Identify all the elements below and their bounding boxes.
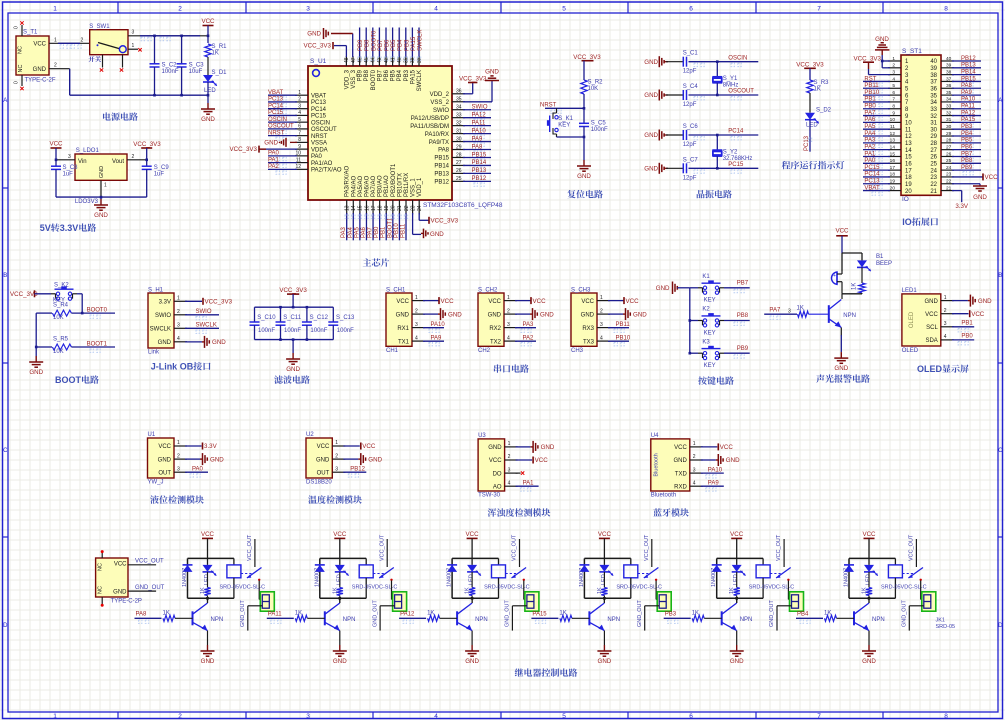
svg-text:OSCOUT: OSCOUT <box>268 124 294 130</box>
svg-text:B: B <box>3 273 7 279</box>
svg-text:3.3V: 3.3V <box>204 443 218 450</box>
svg-text:PA2: PA2 <box>523 336 535 342</box>
svg-text:PA6: PA6 <box>361 226 367 238</box>
svg-text:1: 1 <box>693 441 696 447</box>
svg-text:S_C6: S_C6 <box>683 124 699 130</box>
svg-text:4: 4 <box>693 480 696 486</box>
svg-text:S_C8: S_C8 <box>63 165 79 171</box>
svg-text:2: 2 <box>944 308 947 314</box>
svg-text:PC13: PC13 <box>864 179 880 185</box>
svg-text:GND: GND <box>333 658 347 665</box>
svg-text:4: 4 <box>892 76 895 82</box>
svg-text:S_CH3: S_CH3 <box>571 288 591 294</box>
svg-text:1: 1 <box>53 713 57 720</box>
svg-text:PC13: PC13 <box>311 100 327 106</box>
svg-text:OSCIN: OSCIN <box>311 120 330 126</box>
svg-text:PA8: PA8 <box>472 144 484 150</box>
svg-text:PB4: PB4 <box>961 131 973 137</box>
svg-text:19: 19 <box>905 182 912 188</box>
svg-text:20: 20 <box>890 185 896 191</box>
svg-text:PC13: PC13 <box>268 97 284 103</box>
svg-text:GND: GND <box>316 457 330 463</box>
svg-text:PB5: PB5 <box>961 138 973 144</box>
svg-text:S_CH1: S_CH1 <box>386 288 406 294</box>
svg-text:16: 16 <box>364 205 370 211</box>
svg-text:1uF: 1uF <box>63 172 74 178</box>
svg-text:40: 40 <box>930 59 937 65</box>
svg-text:S_C11: S_C11 <box>283 315 302 321</box>
svg-text:31: 31 <box>930 121 937 127</box>
svg-text:PA11/USB/DM: PA11/USB/DM <box>410 124 449 130</box>
svg-text:PB8: PB8 <box>737 313 749 319</box>
svg-text:S_CH2: S_CH2 <box>478 288 498 294</box>
svg-text:2: 2 <box>54 63 57 69</box>
svg-text:VCC: VCC <box>730 531 744 538</box>
svg-text:BOOT1: BOOT1 <box>387 217 393 238</box>
svg-text:NRST: NRST <box>268 130 285 136</box>
svg-text:SRD-05VDC-SL-C: SRD-05VDC-SL-C <box>352 585 398 591</box>
svg-text:KEY: KEY <box>558 123 570 129</box>
svg-text:PA0: PA0 <box>864 158 876 164</box>
svg-text:PB4: PB4 <box>398 39 404 51</box>
svg-text:SCL: SCL <box>926 325 938 331</box>
svg-text:BOOT1: BOOT1 <box>87 341 108 347</box>
svg-text:VCC: VCC <box>489 458 502 464</box>
svg-text:GND: GND <box>598 658 612 665</box>
svg-text:40: 40 <box>946 56 952 62</box>
svg-text:VCC: VCC <box>862 531 876 538</box>
svg-text:PB12: PB12 <box>434 180 449 186</box>
svg-text:GND: GND <box>94 212 108 219</box>
svg-text:CH2: CH2 <box>478 348 491 354</box>
svg-text:PB6: PB6 <box>961 144 973 150</box>
svg-text:S_R1: S_R1 <box>212 44 228 50</box>
svg-text:VDD_3: VDD_3 <box>344 69 350 89</box>
svg-text:2: 2 <box>892 63 895 69</box>
svg-text:1N4007: 1N4007 <box>314 568 320 587</box>
svg-text:SRD-05: SRD-05 <box>936 624 956 630</box>
svg-text:3: 3 <box>600 322 603 328</box>
svg-text:PB1: PB1 <box>381 226 387 238</box>
svg-text:GND: GND <box>644 166 658 173</box>
svg-text:Bluetooth: Bluetooth <box>651 493 676 499</box>
svg-text:10uF: 10uF <box>189 69 203 75</box>
svg-text:1K: 1K <box>212 51 219 57</box>
svg-text:U1: U1 <box>148 432 156 438</box>
svg-text:1uF: 1uF <box>154 172 165 178</box>
svg-text:100nF: 100nF <box>591 127 608 133</box>
svg-text:TXD: TXD <box>675 471 688 477</box>
svg-text:33: 33 <box>946 104 952 110</box>
svg-text:7: 7 <box>892 97 895 103</box>
svg-text:PB11: PB11 <box>864 83 879 89</box>
svg-text:U2: U2 <box>306 432 314 438</box>
svg-text:21: 21 <box>930 189 937 195</box>
svg-text:RST: RST <box>864 76 876 82</box>
svg-text:1: 1 <box>132 43 135 49</box>
svg-text:K2: K2 <box>702 307 710 313</box>
svg-text:PA8: PA8 <box>136 612 148 618</box>
svg-text:VCC: VCC <box>533 298 547 305</box>
svg-text:OLED: OLED <box>902 348 919 354</box>
svg-text:27: 27 <box>946 144 952 150</box>
svg-text:1: 1 <box>892 56 895 62</box>
svg-text:PB14: PB14 <box>434 164 449 170</box>
svg-text:2: 2 <box>693 454 696 460</box>
svg-text:12pF: 12pF <box>683 102 697 108</box>
svg-text:PA9: PA9 <box>708 481 720 487</box>
svg-text:GND: GND <box>924 299 938 305</box>
svg-text:DO: DO <box>493 471 502 477</box>
svg-text:14: 14 <box>890 144 896 150</box>
svg-text:33: 33 <box>930 107 937 113</box>
svg-text:11: 11 <box>890 124 895 130</box>
svg-text:19: 19 <box>384 205 390 211</box>
svg-text:PB9: PB9 <box>358 69 364 81</box>
svg-text:GND: GND <box>99 166 105 178</box>
svg-text:S_C13: S_C13 <box>336 315 355 321</box>
svg-text:GND: GND <box>29 369 43 376</box>
svg-text:2: 2 <box>600 308 603 314</box>
svg-text:LED: LED <box>806 123 818 129</box>
svg-text:30: 30 <box>946 124 952 130</box>
svg-text:OLED: OLED <box>909 311 915 328</box>
svg-text:38: 38 <box>946 69 952 75</box>
svg-text:GND: GND <box>862 658 876 665</box>
svg-text:VCC: VCC <box>201 18 215 25</box>
svg-text:PA7: PA7 <box>864 110 876 116</box>
svg-text:2: 2 <box>508 454 511 460</box>
svg-text:PA7/AO: PA7/AO <box>371 175 377 197</box>
svg-text:VDDA: VDDA <box>311 147 328 153</box>
svg-text:S_H1: S_H1 <box>148 288 164 294</box>
svg-text:VCC_3V3: VCC_3V3 <box>205 298 233 305</box>
svg-text:35: 35 <box>946 90 952 96</box>
svg-text:10: 10 <box>905 121 912 127</box>
svg-text:S_D2: S_D2 <box>816 108 832 114</box>
svg-text:S_Y1: S_Y1 <box>723 76 738 82</box>
svg-text:37: 37 <box>930 80 937 86</box>
svg-text:GND: GND <box>730 658 744 665</box>
svg-text:36: 36 <box>946 83 952 89</box>
svg-text:PA3: PA3 <box>864 138 876 144</box>
svg-text:GND_OUT: GND_OUT <box>372 599 378 627</box>
svg-text:1K: 1K <box>597 587 603 594</box>
svg-text:1K: 1K <box>729 587 735 594</box>
svg-text:PA7: PA7 <box>769 308 781 314</box>
svg-text:NC: NC <box>98 563 104 571</box>
svg-text:GND: GND <box>644 59 658 66</box>
svg-text:12pF: 12pF <box>683 69 697 75</box>
svg-text:PA1: PA1 <box>523 481 535 487</box>
svg-text:SWCLK: SWCLK <box>150 327 171 333</box>
svg-text:20: 20 <box>391 205 397 211</box>
svg-text:VSS_3: VSS_3 <box>351 69 357 88</box>
svg-text:31: 31 <box>946 117 952 123</box>
svg-text:PA15: PA15 <box>532 612 547 618</box>
svg-text:PB13: PB13 <box>434 172 449 178</box>
svg-text:PC14: PC14 <box>268 103 284 109</box>
svg-text:1: 1 <box>600 295 603 301</box>
svg-text:Vin: Vin <box>78 159 87 165</box>
svg-text:PB7: PB7 <box>378 39 384 51</box>
svg-text:KEY: KEY <box>704 330 716 336</box>
svg-text:PA15: PA15 <box>411 36 417 51</box>
svg-text:VCC: VCC <box>201 531 215 538</box>
svg-text:SWCLK: SWCLK <box>196 323 217 329</box>
svg-text:S_C10: S_C10 <box>257 315 276 321</box>
svg-text:CH3: CH3 <box>571 348 584 354</box>
svg-text:48: 48 <box>344 57 350 63</box>
svg-text:SRD-05VDC-SL-C: SRD-05VDC-SL-C <box>881 585 927 591</box>
svg-text:VSSA: VSSA <box>311 141 327 147</box>
svg-text:PA2: PA2 <box>864 144 876 150</box>
svg-text:S_C7: S_C7 <box>683 157 699 163</box>
svg-text:S_C2: S_C2 <box>162 63 178 69</box>
svg-text:18: 18 <box>905 175 912 181</box>
svg-text:1K: 1K <box>814 87 821 93</box>
svg-text:B: B <box>998 273 1002 279</box>
svg-text:S_ST1: S_ST1 <box>902 48 922 55</box>
svg-text:PA10: PA10 <box>708 467 723 473</box>
svg-text:3: 3 <box>415 322 418 328</box>
svg-text:PB7: PB7 <box>961 151 973 157</box>
svg-text:PB10: PB10 <box>864 90 879 96</box>
svg-text:PA11: PA11 <box>268 612 282 618</box>
svg-text:RXD: RXD <box>674 484 687 490</box>
svg-text:GND: GND <box>488 445 502 451</box>
svg-text:NRST: NRST <box>540 103 557 109</box>
svg-text:PB0/AO: PB0/AO <box>378 175 384 197</box>
svg-text:1: 1 <box>507 295 510 301</box>
svg-text:RX1: RX1 <box>397 326 409 332</box>
svg-text:1: 1 <box>944 295 947 301</box>
svg-text:CH1: CH1 <box>386 348 399 354</box>
svg-text:VCC: VCC <box>581 299 594 305</box>
svg-text:PA15: PA15 <box>410 69 416 84</box>
svg-text:6: 6 <box>689 6 693 13</box>
svg-text:PA2/TX/AO: PA2/TX/AO <box>311 168 342 174</box>
svg-text:PB0: PB0 <box>961 334 973 340</box>
svg-text:1: 1 <box>177 440 180 446</box>
svg-text:GND: GND <box>368 456 382 463</box>
svg-text:SWIO: SWIO <box>433 108 449 114</box>
svg-text:PB5: PB5 <box>391 39 397 51</box>
svg-text:PA10: PA10 <box>431 322 446 328</box>
svg-text:3: 3 <box>177 466 180 472</box>
svg-text:4: 4 <box>944 334 947 340</box>
svg-text:VCC_OUT: VCC_OUT <box>644 534 650 561</box>
svg-text:GND_OUT: GND_OUT <box>240 599 246 627</box>
svg-text:2: 2 <box>507 308 510 314</box>
svg-text:GND: GND <box>448 311 462 318</box>
svg-text:GND: GND <box>201 116 215 123</box>
svg-text:PA9: PA9 <box>431 336 443 342</box>
svg-text:PA6/AO: PA6/AO <box>364 175 370 197</box>
svg-text:PB4: PB4 <box>397 69 403 81</box>
svg-text:PA5/AO: PA5/AO <box>358 175 364 197</box>
svg-text:AO: AO <box>493 484 502 490</box>
svg-text:SRD-05VDC-SL-C: SRD-05VDC-SL-C <box>749 585 795 591</box>
svg-text:32: 32 <box>930 114 937 120</box>
svg-text:34: 34 <box>946 97 952 103</box>
svg-text:PB12: PB12 <box>961 56 976 62</box>
svg-text:U4: U4 <box>651 433 659 439</box>
svg-text:PA6: PA6 <box>864 117 876 123</box>
svg-text:S_U1: S_U1 <box>310 58 327 65</box>
svg-text:11: 11 <box>905 127 912 133</box>
svg-text:8: 8 <box>944 713 948 720</box>
svg-text:3: 3 <box>788 308 791 314</box>
svg-text:100nF: 100nF <box>284 328 301 334</box>
svg-text:A: A <box>3 98 7 104</box>
svg-text:1N4007: 1N4007 <box>447 568 453 587</box>
svg-text:5V: 5V <box>40 223 51 233</box>
svg-text:GND: GND <box>673 458 687 464</box>
svg-text:VCC: VCC <box>466 531 480 538</box>
svg-text:NPN: NPN <box>475 617 488 623</box>
svg-text:PB3: PB3 <box>404 39 410 51</box>
svg-text:VCC: VCC <box>488 299 501 305</box>
svg-text:4: 4 <box>177 336 180 342</box>
svg-text:S_C3: S_C3 <box>189 63 205 69</box>
svg-text:1N4007: 1N4007 <box>844 568 850 587</box>
svg-text:28: 28 <box>946 138 952 144</box>
svg-text:TYPE-C-2P: TYPE-C-2P <box>111 599 142 605</box>
svg-text:1N4007: 1N4007 <box>182 568 188 587</box>
svg-text:PB8: PB8 <box>364 69 370 81</box>
svg-text:GND: GND <box>541 444 555 451</box>
svg-text:SWIO: SWIO <box>155 313 171 319</box>
svg-text:PC15: PC15 <box>311 114 327 120</box>
svg-text:U3: U3 <box>478 433 486 439</box>
svg-text:NPN: NPN <box>740 617 753 623</box>
svg-text:PC14: PC14 <box>311 107 327 113</box>
svg-text:10: 10 <box>890 117 896 123</box>
svg-text:VDD_2: VDD_2 <box>430 92 450 98</box>
svg-text:13: 13 <box>345 205 351 211</box>
svg-text:VSS_1: VSS_1 <box>411 178 417 197</box>
svg-text:D: D <box>3 623 8 629</box>
svg-text:4: 4 <box>434 6 438 13</box>
svg-text:VCC: VCC <box>971 311 985 318</box>
svg-text:GND: GND <box>875 36 889 43</box>
svg-text:NPN: NPN <box>607 617 620 623</box>
svg-text:VCC: VCC <box>33 42 46 48</box>
svg-text:PC15: PC15 <box>864 165 880 171</box>
svg-text:VSS_2: VSS_2 <box>430 100 449 106</box>
svg-text:GND: GND <box>264 140 278 147</box>
svg-text:VDD_1: VDD_1 <box>417 177 423 197</box>
svg-text:Link: Link <box>148 350 160 356</box>
svg-text:PB1: PB1 <box>961 320 973 326</box>
svg-text:14: 14 <box>351 205 357 211</box>
svg-text:OLED: OLED <box>917 364 943 374</box>
svg-text:PB14: PB14 <box>472 160 487 166</box>
svg-text:VCC_3V3: VCC_3V3 <box>303 43 331 50</box>
svg-text:18: 18 <box>890 172 896 178</box>
svg-text:PB5: PB5 <box>391 69 397 81</box>
svg-text:2: 2 <box>177 453 180 459</box>
svg-text:24: 24 <box>417 205 423 211</box>
svg-text:2: 2 <box>81 38 84 44</box>
svg-text:S_LDO1: S_LDO1 <box>76 148 100 154</box>
svg-text:PB3: PB3 <box>961 124 973 130</box>
svg-text:PA10/RX: PA10/RX <box>425 132 449 138</box>
svg-text:GND: GND <box>577 173 591 180</box>
svg-text:1: 1 <box>177 296 180 302</box>
svg-text:29: 29 <box>930 134 937 140</box>
svg-text:26: 26 <box>946 151 952 157</box>
svg-text:PB7: PB7 <box>737 280 749 286</box>
svg-text:PA3: PA3 <box>523 322 535 328</box>
svg-text:2: 2 <box>178 6 182 13</box>
svg-text:29: 29 <box>946 131 952 137</box>
svg-text:GND: GND <box>726 457 740 464</box>
svg-text:S_C5: S_C5 <box>591 121 607 127</box>
svg-text:VCC_OUT: VCC_OUT <box>379 534 385 561</box>
svg-text:BOOT0: BOOT0 <box>371 69 377 90</box>
svg-text:SRD-05VDC-SL-C: SRD-05VDC-SL-C <box>616 585 662 591</box>
svg-text:14: 14 <box>905 148 912 154</box>
svg-text:PC15: PC15 <box>728 162 744 168</box>
svg-text:VCC_OUT: VCC_OUT <box>776 534 782 561</box>
svg-text:GND: GND <box>396 312 410 318</box>
svg-text:PB0: PB0 <box>864 104 876 110</box>
svg-text:LDO3V3: LDO3V3 <box>75 199 99 205</box>
svg-text:GND: GND <box>210 456 224 463</box>
svg-text:S_SW1: S_SW1 <box>89 24 110 30</box>
svg-text:RX2: RX2 <box>489 326 501 332</box>
svg-text:GND_OUT: GND_OUT <box>505 599 511 627</box>
svg-text:NC: NC <box>18 46 24 54</box>
svg-text:PB1/AO: PB1/AO <box>384 175 390 197</box>
svg-text:PB14: PB14 <box>961 69 976 75</box>
svg-text:100nF: 100nF <box>337 328 354 334</box>
svg-text:PA1/AO: PA1/AO <box>311 161 333 167</box>
svg-text:3: 3 <box>177 323 180 329</box>
svg-text:J-Link OB: J-Link OB <box>151 362 194 372</box>
svg-text:15: 15 <box>358 205 364 211</box>
svg-text:VCC: VCC <box>317 444 330 450</box>
svg-text:0: 0 <box>14 81 20 84</box>
svg-text:7: 7 <box>817 6 821 13</box>
svg-text:TX2: TX2 <box>490 339 502 345</box>
svg-text:GND: GND <box>581 312 595 318</box>
svg-text:34: 34 <box>930 100 937 106</box>
svg-text:VCC_3V3: VCC_3V3 <box>796 62 824 69</box>
svg-text:PA12: PA12 <box>961 110 976 116</box>
svg-text:GND: GND <box>540 311 554 318</box>
svg-text:GND: GND <box>834 365 848 372</box>
svg-text:PB3: PB3 <box>404 69 410 81</box>
svg-text:3.3V: 3.3V <box>60 223 79 233</box>
svg-text:1K: 1K <box>465 587 471 594</box>
svg-text:DS18B20: DS18B20 <box>306 480 332 486</box>
svg-text:OUT: OUT <box>158 470 171 476</box>
svg-text:GND_OUT: GND_OUT <box>902 599 908 627</box>
svg-text:10K: 10K <box>53 315 64 321</box>
svg-text:VCC: VCC <box>674 445 687 451</box>
svg-text:12pF: 12pF <box>683 175 697 181</box>
svg-text:1K: 1K <box>862 587 868 594</box>
svg-text:PB15: PB15 <box>472 152 487 158</box>
svg-text:17: 17 <box>905 168 912 174</box>
svg-text:IO: IO <box>902 217 912 227</box>
svg-text:25: 25 <box>930 162 937 168</box>
svg-text:32.768KHz: 32.768KHz <box>723 156 753 162</box>
svg-text:23: 23 <box>946 172 952 178</box>
